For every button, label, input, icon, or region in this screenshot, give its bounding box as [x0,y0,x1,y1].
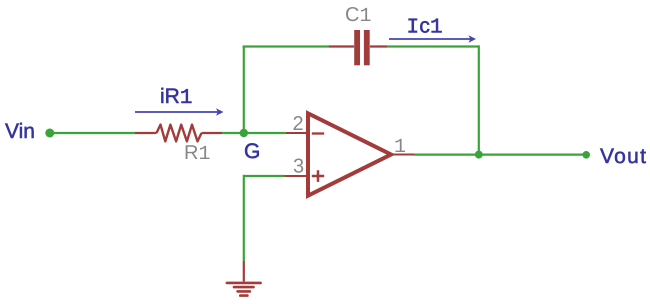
op-amp U1 triangle [308,113,391,195]
node G junction [240,129,248,137]
wire right vertical down [478,45,480,154]
svg-text:Vin: Vin [5,120,35,143]
pin 2 stub [286,132,308,134]
wire output to Vout [415,154,587,156]
svg-text:3: 3 [293,156,304,178]
current arrow Ic1 [389,35,476,43]
wire C1 to right corner [387,45,479,47]
svg-text:1: 1 [394,136,406,159]
wire R1 to op-amp pin2 [222,132,286,134]
svg-text:Ic1: Ic1 [407,15,443,40]
wire top left to C1 [243,45,329,47]
ground symbol bars [227,283,261,296]
wire Vin to R1 [50,132,135,134]
svg-text:G: G [244,140,260,163]
svg-text:2: 2 [293,113,304,135]
wire pin3 to ground corner [244,175,285,177]
svg-text:C1: C1 [345,4,371,28]
wire G up to C1 [243,47,245,134]
node output junction [475,151,483,159]
svg-text:R1: R1 [184,142,210,166]
pin 1 output stub [390,154,416,156]
node Vin terminal [45,129,54,138]
node Vout terminal [582,151,590,159]
ground stem [243,261,245,282]
current arrow iR1 [135,108,224,116]
resistor R1 [135,125,222,142]
op-amp minus symbol [312,132,324,134]
svg-text:Vout: Vout [600,145,647,168]
svg-text:iR1: iR1 [160,85,192,110]
pin 3 stub [285,175,309,177]
capacitor C1 [329,30,387,65]
wire ground vertical [243,175,245,261]
op-amp plus symbol [312,170,324,182]
